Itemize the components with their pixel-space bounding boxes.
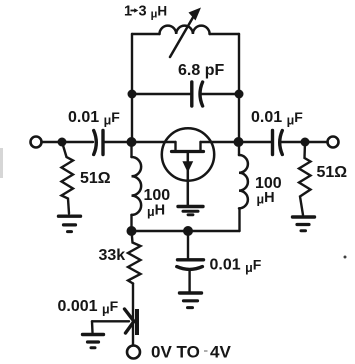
svg-text:4V: 4V: [210, 343, 231, 362]
svg-text:51Ω: 51Ω: [317, 164, 348, 181]
svg-text:0V TO: 0V TO: [151, 343, 200, 362]
svg-text:μH: μH: [147, 203, 165, 220]
svg-text:6.8 pF: 6.8 pF: [178, 62, 224, 79]
svg-text:0.01 μF: 0.01 μF: [210, 257, 262, 276]
svg-text:0.01 μF: 0.01 μF: [251, 109, 303, 128]
svg-text:100: 100: [144, 187, 171, 204]
svg-text:0.01 μF: 0.01 μF: [68, 109, 120, 128]
svg-text:μH: μH: [257, 190, 275, 207]
svg-text:33k: 33k: [99, 247, 126, 264]
svg-text:51Ω: 51Ω: [80, 170, 111, 187]
svg-text:0.001 μF: 0.001 μF: [58, 298, 119, 317]
svg-text:1: 1: [124, 4, 132, 20]
